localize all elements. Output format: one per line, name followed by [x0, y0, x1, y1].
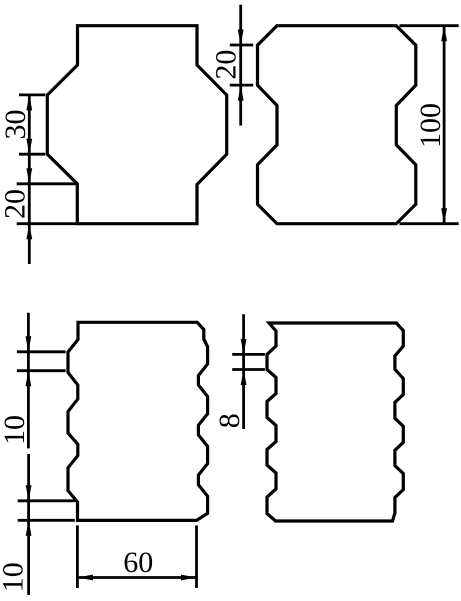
extension line for upper dim 10 top [17, 350, 66, 353]
arrowhead dim30 top (up) [26, 95, 32, 111]
extension line for dim 30 top [19, 94, 45, 97]
svg-text:10: 10 [0, 415, 31, 445]
shape 3 outline (bottom-left zigzag paver) [68, 322, 208, 520]
arrowhead dim60 right [181, 575, 197, 581]
extension line for top dim 20 upper [230, 44, 253, 47]
svg-text:10: 10 [0, 562, 30, 592]
arrowhead dim60 left [77, 575, 93, 581]
arrowhead dim10-upper top (down) [26, 336, 32, 352]
dim 10 lower dimension line (bottom-left of shape 3) [27, 454, 30, 595]
arrowhead dim10-lower top (down) [26, 485, 32, 501]
shape 4 outline (bottom-right fine-zigzag paver) [267, 323, 403, 521]
arrowhead dim20-left bottom (up) [26, 224, 32, 240]
extension line for dim 30 bottom [19, 153, 45, 156]
svg-text:60: 60 [123, 546, 153, 579]
arrowhead dim100 bottom (down) [441, 208, 447, 224]
extension line for dim 8 bottom [232, 368, 265, 371]
extension line for top dim 20 lower [230, 84, 253, 87]
arrowhead dim100 top (up) [441, 26, 447, 42]
extension line for lower dim 10 bottom [18, 519, 75, 522]
extension line for dim 60 right [195, 525, 198, 588]
svg-text:8: 8 [213, 413, 246, 428]
extension line for dim 20 bottom (merges with shape1 bottom) [17, 222, 78, 225]
dim 20 dimension line (top middle, shape 2 left segment) [239, 5, 242, 126]
dim 60 dimension line (below shape 3) [77, 576, 196, 579]
extension line for dim 100 bottom [400, 222, 459, 225]
arrowhead dim10-upper bottom (up) [26, 371, 32, 387]
shape 1 outline (top-left octagonal paver) [47, 26, 226, 224]
arrowhead dim8 bottom (up) [241, 370, 247, 386]
shape 2 outline (top-right notched paver) [258, 26, 416, 224]
arrowhead dim30 bottom (down) [26, 139, 32, 155]
svg-text:20: 20 [0, 189, 32, 219]
dim 10 upper dimension line (left of shape 3) [27, 313, 30, 449]
dim 100 dimension line (right of shape 2) [443, 26, 446, 224]
svg-text:20: 20 [210, 50, 243, 80]
extension line for dim 8 top [232, 353, 265, 356]
extension line for upper dim 10 bottom [17, 369, 66, 372]
extension line for dim 20 top (shape1 lower-left corner) [17, 182, 78, 185]
arrowhead dim8 top (down) [241, 339, 247, 355]
arrowhead dim20-top upper (down) [238, 30, 244, 46]
dim 8 dimension line (left of shape 4) [242, 314, 245, 429]
extension line for lower dim 10 top [18, 499, 75, 502]
svg-text:100: 100 [414, 103, 447, 148]
arrowhead dim20-left top (down) [26, 168, 32, 184]
arrowhead dim10-lower bottom (up) [26, 520, 32, 536]
svg-text:30: 30 [0, 110, 32, 140]
extension line for dim 60 left [76, 525, 79, 588]
dim 30/20 shared dimension line (left of shape 1) [28, 95, 31, 264]
arrowhead dim20-top lower (up) [238, 85, 244, 101]
extension line for dim 100 top [400, 24, 459, 27]
